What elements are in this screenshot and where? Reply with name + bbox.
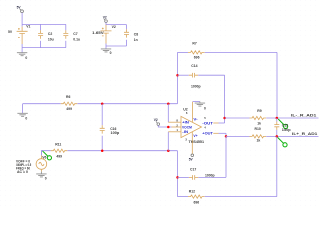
capacitor C8 xyxy=(124,25,129,46)
resistor R9 xyxy=(250,116,267,119)
node junction C17 left xyxy=(176,176,179,179)
svg-text:0: 0 xyxy=(110,51,112,55)
node junction output plus xyxy=(276,135,279,138)
ground 0 at V- xyxy=(195,102,206,111)
pin -IN stub xyxy=(168,131,181,133)
wire C17 right up to +OUT jog xyxy=(225,136,227,177)
svg-text:0: 0 xyxy=(204,106,206,110)
label 1000p (C17) xyxy=(205,174,215,178)
label R10 xyxy=(255,127,261,131)
pin number 2 xyxy=(176,123,178,127)
wire C14 right down to -OUT jog xyxy=(224,75,226,123)
wire rise to -IN pin xyxy=(167,132,169,151)
svg-text:0: 0 xyxy=(45,177,47,181)
pin number 3 xyxy=(185,138,187,142)
label C14 xyxy=(191,64,197,68)
wire 5V port to top rail xyxy=(21,13,23,25)
label R7 xyxy=(192,41,196,45)
svg-text:V1: V1 xyxy=(26,24,30,28)
svg-text:THS4551: THS4551 xyxy=(189,140,205,144)
svg-text:C14: C14 xyxy=(191,64,197,68)
capacitor C14 xyxy=(178,73,225,78)
label 150p xyxy=(282,128,291,132)
svg-text:IL+_R_AD1: IL+_R_AD1 xyxy=(292,132,317,136)
wire R6 to +IN node xyxy=(77,103,177,105)
wire drop to +IN pin xyxy=(167,104,169,123)
label V1 xyxy=(26,24,30,28)
resistor R11 xyxy=(51,149,68,152)
svg-text:696: 696 xyxy=(194,201,200,205)
wire source to R11 xyxy=(41,151,50,156)
power port 5V below op-amp xyxy=(189,154,194,162)
node junction C16 bottom xyxy=(101,149,104,152)
pin number 5 xyxy=(204,116,206,120)
svg-text:+IN: +IN xyxy=(182,121,190,125)
voltage source V2 battery xyxy=(101,25,112,46)
net label IL+_R_AD1 xyxy=(292,132,317,136)
pin name V- xyxy=(193,118,197,122)
pin name V+ xyxy=(193,134,197,138)
wire R7 right down to -OUT node xyxy=(276,52,278,118)
wire +OUT jog down xyxy=(225,133,227,136)
pin +OUT stub wire xyxy=(213,132,226,134)
op-amp U2 THS4551 xyxy=(181,116,202,137)
pin name VOCM xyxy=(182,125,192,129)
label R9 xyxy=(257,109,261,113)
wire R9 to output node xyxy=(266,117,318,119)
label C2 xyxy=(48,32,52,36)
label 1k (R10) xyxy=(257,139,261,143)
capacitor C2 xyxy=(38,24,43,47)
power port V2 (top middle) xyxy=(103,15,108,22)
svg-text:-IN: -IN xyxy=(182,130,189,134)
label 1000p (C14) xyxy=(191,85,201,89)
node junction -IN rise xyxy=(167,149,170,152)
svg-text:V2: V2 xyxy=(154,118,158,122)
svg-text:V-: V- xyxy=(193,118,197,122)
svg-text:V2: V2 xyxy=(103,15,107,19)
capacitor C15 xyxy=(274,118,279,136)
feedback vertical bottom input xyxy=(177,151,179,197)
svg-text:10u: 10u xyxy=(48,38,54,42)
label R12 xyxy=(189,189,195,193)
pin number 4 xyxy=(204,125,206,129)
label 696 (R7) xyxy=(194,56,200,60)
pin -OUT stub wire xyxy=(213,122,224,124)
svg-text:R7: R7 xyxy=(192,41,196,45)
resistor R10 xyxy=(250,135,267,138)
pin name +OUT xyxy=(202,132,213,136)
label 10u xyxy=(48,38,54,42)
svg-text:IL-_R_AD1: IL-_R_AD1 xyxy=(291,114,316,118)
svg-text:V+: V+ xyxy=(193,134,197,138)
svg-text:C15: C15 xyxy=(282,123,288,127)
node junction +IN drop xyxy=(167,102,170,105)
svg-text:V2: V2 xyxy=(112,25,116,29)
label R11 xyxy=(55,142,61,146)
ground 0 under V1 xyxy=(17,48,27,60)
wire +OUT node to R10 xyxy=(226,135,250,137)
svg-text:C2: C2 xyxy=(48,32,52,36)
svg-text:100p: 100p xyxy=(111,131,120,135)
resistor R6 xyxy=(61,102,78,105)
svg-text:C17: C17 xyxy=(190,167,196,171)
label 499 (R6) xyxy=(66,107,72,111)
pin VOCM stub xyxy=(172,126,182,128)
label V6 source name xyxy=(42,156,46,160)
voltage probe marker at +OUT xyxy=(278,137,288,147)
capacitor C16 xyxy=(100,104,105,151)
svg-text:R9: R9 xyxy=(257,109,261,113)
capacitor C7 xyxy=(63,24,68,47)
wire R11 to -IN node xyxy=(67,150,177,152)
svg-text:1.65V: 1.65V xyxy=(92,31,104,35)
svg-text:R10: R10 xyxy=(255,127,261,131)
svg-text:VOCM: VOCM xyxy=(182,125,192,129)
label U2 xyxy=(183,107,187,111)
node junction output minus xyxy=(276,117,279,120)
label V2 component xyxy=(112,25,116,29)
label 499 (R11) xyxy=(56,155,62,159)
wire bottom rail V1 block xyxy=(22,47,66,49)
sine source V6 VSIN xyxy=(36,151,47,172)
pin name -OUT xyxy=(202,121,213,125)
label THS4551 xyxy=(189,140,205,144)
voltage probe marker at source xyxy=(42,150,52,160)
wire top rail V1 block xyxy=(22,23,66,25)
wire bottom rail V2 block xyxy=(106,45,127,47)
node junction C16 top xyxy=(101,102,104,105)
wire -OUT node to R9 xyxy=(225,117,250,119)
svg-text:1000p: 1000p xyxy=(205,174,215,178)
svg-text:R11: R11 xyxy=(55,142,61,146)
label 100p xyxy=(111,131,120,135)
power port 5V (top left) xyxy=(17,5,24,12)
pin number 1 xyxy=(176,128,178,132)
svg-text:499: 499 xyxy=(66,107,72,111)
label C17 xyxy=(190,167,196,171)
svg-text:1n: 1n xyxy=(134,38,138,42)
svg-text:AC = 0: AC = 0 xyxy=(17,170,28,174)
svg-text:696: 696 xyxy=(194,56,200,60)
power port V2 at VOCM xyxy=(154,118,160,126)
svg-text:R12: R12 xyxy=(189,189,195,193)
svg-text:5V: 5V xyxy=(8,30,13,34)
label 1.65V xyxy=(92,31,104,35)
label R6 xyxy=(66,95,70,99)
feedback vertical top input xyxy=(177,52,179,103)
ground 0 under V2 xyxy=(101,46,112,55)
resistor R7 xyxy=(178,51,278,54)
label 0.1u xyxy=(73,38,80,42)
node junction -OUT xyxy=(223,117,226,120)
label C15 xyxy=(282,123,288,127)
svg-text:0.1u: 0.1u xyxy=(73,38,80,42)
wire V2 port to VOCM pin xyxy=(158,125,171,127)
pin number 8 xyxy=(176,119,178,123)
svg-text:499: 499 xyxy=(56,155,62,159)
ground 0 at left input xyxy=(17,104,27,121)
capacitor C17 xyxy=(178,175,227,180)
pin name -IN xyxy=(182,130,189,134)
net label IL-_R_AD1 xyxy=(291,114,316,118)
ground 0 under source xyxy=(36,172,47,181)
svg-text:R6: R6 xyxy=(66,95,70,99)
node junction +OUT xyxy=(225,135,228,138)
voltage source V1 battery xyxy=(17,24,28,47)
svg-text:C7: C7 xyxy=(73,32,77,36)
svg-text:0: 0 xyxy=(25,56,27,60)
voltage probe marker at -OUT xyxy=(278,119,288,129)
svg-text:1000p: 1000p xyxy=(191,85,201,89)
label 5V value xyxy=(8,30,13,34)
svg-text:0: 0 xyxy=(25,116,27,120)
wire R10 to output node xyxy=(266,135,318,137)
node junction on VOCM wire xyxy=(167,126,170,129)
node junction C14 left xyxy=(176,74,179,77)
pin V- stub to ground xyxy=(193,102,200,122)
label C7 xyxy=(73,32,77,36)
label C16 xyxy=(110,127,116,131)
sine source parameters label xyxy=(16,159,31,174)
wire ground to R6 xyxy=(23,103,61,105)
svg-text:150p: 150p xyxy=(282,128,291,132)
pin name +IN xyxy=(182,121,190,125)
svg-text:1k: 1k xyxy=(257,122,261,126)
label C8 xyxy=(134,33,138,37)
pin V+ stub to 5V port xyxy=(191,132,193,154)
svg-text:C8: C8 xyxy=(134,33,138,37)
label 1n xyxy=(134,38,138,42)
wire V2 port down and rail to C8 xyxy=(106,22,127,24)
resistor R12 xyxy=(178,195,277,198)
svg-text:1k: 1k xyxy=(257,139,261,143)
label 1k (R9) xyxy=(257,122,261,126)
pin +IN stub xyxy=(168,121,181,123)
wire R12 right up to output plus node xyxy=(276,136,278,196)
label 696 (R12) xyxy=(194,201,200,205)
pin 6 number xyxy=(186,111,188,115)
svg-text:+OUT: +OUT xyxy=(202,132,213,136)
